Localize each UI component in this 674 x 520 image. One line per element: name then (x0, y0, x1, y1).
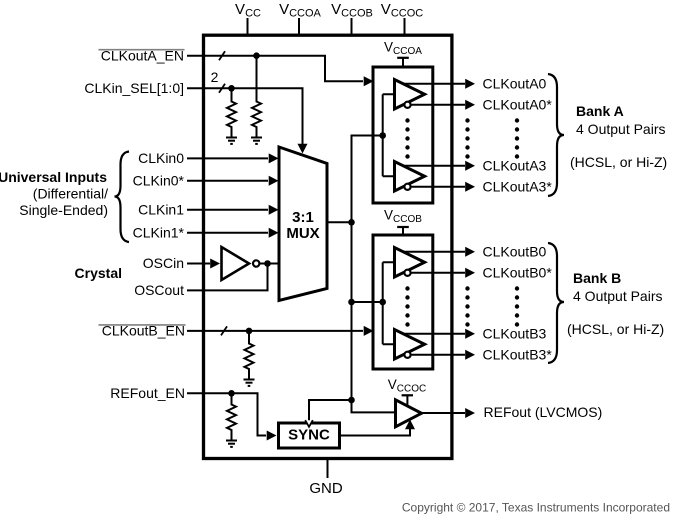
wire MUX output (327, 221, 352, 223)
buffer A3/A3* pair (395, 162, 425, 192)
svg-text:2: 2 (211, 69, 219, 85)
arrow OSCin into inverter (210, 259, 220, 269)
svg-text:VCCOA: VCCOA (279, 1, 321, 20)
arrow CLKoutB_EN into Bank B (364, 326, 374, 336)
buffer A0/A0* pair (395, 80, 425, 110)
junction bank B input (379, 299, 386, 306)
svg-text:OSCout: OSCout (134, 282, 184, 298)
buffer REFout (LVCMOS) (396, 400, 422, 427)
arrow CLKin0* into MUX (269, 176, 279, 186)
junction trunk to Bank B (348, 299, 355, 306)
bank A output ellipsis dots col2 (515, 118, 519, 122)
buffer B0/B0* pair (395, 248, 425, 278)
power pin VCCOA stub (298, 18, 300, 35)
svg-text:CLKoutB_EN: CLKoutB_EN (102, 323, 185, 339)
svg-text:MUX: MUX (286, 225, 319, 242)
svg-text:SYNC: SYNC (288, 427, 330, 444)
svg-text:Bank B: Bank B (573, 270, 621, 286)
svg-text:(HCSL, or Hi-Z): (HCSL, or Hi-Z) (567, 321, 664, 337)
wire OSCin (187, 263, 210, 265)
sync block box (279, 423, 340, 448)
power pin VCC stub (247, 18, 249, 35)
resistor pulldown on CLKoutB_EN (245, 331, 254, 380)
svg-text:Copyright © 2017, Texas Instru: Copyright © 2017, Texas Instruments Inco… (402, 501, 670, 515)
arrow CLKin_SEL into MUX (298, 144, 308, 154)
bank B box (373, 235, 433, 369)
buffer B3/B3* pair (395, 330, 425, 360)
wire REFout_EN (187, 393, 266, 435)
svg-text:CLKoutB3*: CLKoutB3* (483, 347, 553, 363)
arrow CLKin1 into MUX (269, 205, 279, 215)
bus slash CLKin_SEL (219, 84, 225, 93)
bank A box (373, 67, 433, 203)
bus slash CLKoutB_EN (221, 326, 227, 335)
inverter output bubble (253, 260, 259, 266)
main block outline (204, 35, 452, 458)
mux 3:1 MUX body (279, 147, 327, 301)
resistor pulldown on CLKin_SEL (227, 88, 236, 137)
wire CLKin0* (187, 180, 268, 182)
junction CLKin_SEL / pulldown (228, 85, 235, 92)
svg-text:CLKoutA_EN: CLKoutA_EN (101, 48, 184, 64)
junction trunk to REFout buffer (348, 397, 355, 404)
power pin VCCOB stub (351, 18, 353, 35)
svg-text:CLKoutA3: CLKoutA3 (483, 158, 547, 174)
svg-text:CLKin1: CLKin1 (138, 202, 184, 218)
svg-text:VCCOC: VCCOC (388, 377, 426, 395)
wire inverter output to MUX (260, 263, 278, 265)
svg-text:CLKoutB3: CLKoutB3 (483, 326, 547, 342)
arrow CLKin1* into MUX (269, 228, 279, 238)
svg-text:VCCOC: VCCOC (381, 1, 423, 20)
wire CLKoutB_EN (187, 330, 363, 332)
arrow CLKin0 into MUX (269, 153, 279, 163)
wire OSCout (187, 264, 268, 291)
svg-text:VCCOB: VCCOB (331, 1, 373, 20)
wire CLKin0 (187, 157, 268, 159)
bank B VCCOB rail symbol (397, 226, 409, 228)
svg-text:CLKin_SEL[1:0]: CLKin_SEL[1:0] (84, 80, 184, 96)
svg-text:4 Output Pairs: 4 Output Pairs (576, 121, 666, 137)
junction bank A input (379, 132, 386, 139)
wire CLKin1 (187, 209, 268, 211)
inverter U1 (crystal oscillator) (222, 247, 250, 280)
svg-text:4 Output Pairs: 4 Output Pairs (573, 288, 663, 304)
bank A internal ellipsis dots (405, 118, 409, 122)
svg-text:(Differential/: (Differential/ (33, 185, 108, 201)
arrow REFout_EN into SYNC (267, 431, 277, 441)
arrow SYNC to REFout buffer (405, 420, 415, 430)
svg-text:(HCSL, or Hi-Z): (HCSL, or Hi-Z) (570, 154, 667, 170)
bank B output ellipsis dots col1 (465, 286, 469, 290)
svg-text:Bank A: Bank A (576, 103, 624, 119)
wire CLKoutA_EN (187, 56, 363, 82)
junction CLKoutB_EN / pulldown (246, 328, 253, 335)
wire trunk to Bank B (352, 301, 383, 303)
bank B output ellipsis dots col2 (515, 286, 519, 290)
bank B internal ellipsis dots (405, 286, 409, 290)
svg-text:REFout (LVCMOS): REFout (LVCMOS) (484, 404, 603, 420)
resistor pulldown on CLKoutA_EN (252, 56, 261, 138)
svg-text:GND: GND (309, 480, 343, 497)
junction MUX output / trunk (348, 219, 355, 226)
svg-text:OSCin: OSCin (143, 255, 184, 271)
svg-text:VCC: VCC (235, 1, 261, 20)
wire CLKin_SEL (187, 88, 303, 144)
brace bank B (548, 243, 564, 363)
bus slash CLKoutA_EN (219, 51, 225, 60)
wire REFout output (422, 412, 466, 414)
svg-text:CLKoutB0: CLKoutB0 (483, 244, 547, 260)
arrow REFout output (465, 408, 475, 418)
svg-text:VCCOB: VCCOB (384, 208, 422, 226)
svg-text:CLKoutA3*: CLKoutA3* (483, 179, 553, 195)
svg-text:CLKin0*: CLKin0* (133, 173, 185, 189)
wire distribution trunk (352, 136, 383, 401)
svg-text:Universal Inputs: Universal Inputs (0, 169, 107, 185)
wire CLKin1* (187, 232, 268, 234)
junction REFout_EN / pulldown (228, 390, 235, 397)
svg-text:VCCOA: VCCOA (384, 40, 422, 58)
net CLKoutB_EN overline (99, 324, 186, 326)
svg-text:REFout_EN: REFout_EN (110, 385, 185, 401)
wire trunk to SYNC (309, 400, 352, 422)
brace bank A (548, 74, 564, 196)
refout VCCOC rail symbol (402, 394, 413, 396)
svg-text:CLKin1*: CLKin1* (133, 225, 185, 241)
bank B internal input bus (382, 262, 384, 344)
svg-text:CLKoutA0*: CLKoutA0* (483, 97, 553, 113)
wire SYNC output to REFout buffer (340, 429, 411, 436)
net CLKoutA_EN overline (99, 49, 185, 51)
svg-text:Single-Ended): Single-Ended) (19, 202, 108, 218)
svg-text:CLKoutB0*: CLKoutB0* (483, 265, 553, 281)
ground pin GND stub (327, 459, 329, 479)
resistor pulldown on REFout_EN (227, 393, 236, 440)
svg-text:Crystal: Crystal (75, 265, 122, 281)
svg-text:CLKoutA0: CLKoutA0 (483, 76, 547, 92)
svg-text:3:1: 3:1 (292, 209, 314, 226)
svg-text:CLKin0: CLKin0 (138, 150, 184, 166)
power pin VCCOC stub (404, 18, 406, 35)
bank A internal input bus (382, 94, 384, 176)
junction CLKoutA_EN / pulldown (253, 52, 260, 59)
wire trunk to REFout buffer (352, 400, 396, 412)
bank A output ellipsis dots col1 (465, 118, 469, 122)
bank A VCCOA rail symbol (397, 57, 409, 59)
arrow CLKoutA_EN into Bank A (364, 76, 374, 86)
brace universal inputs (115, 152, 130, 243)
junction inverter output / OSCout (264, 260, 271, 267)
open arrow into SYNC top (305, 420, 313, 427)
